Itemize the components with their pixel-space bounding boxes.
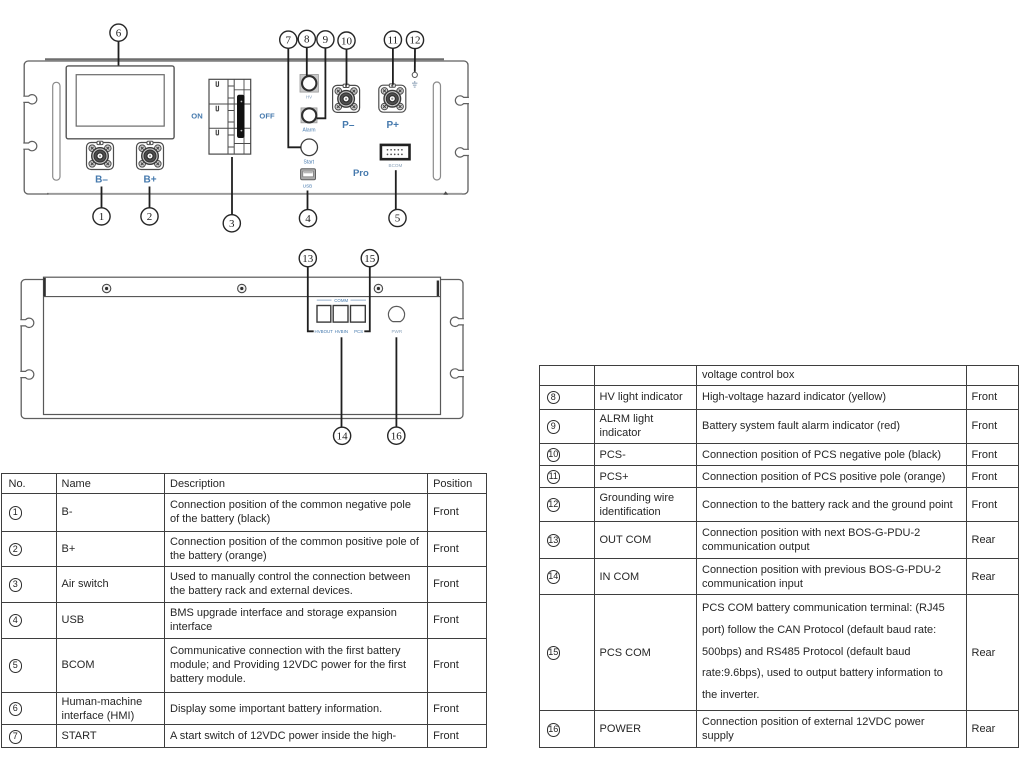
callout 16: [388, 427, 405, 444]
PWR connector (16): [388, 306, 404, 321]
leader line 16: [395, 337, 397, 427]
svg-text:9: 9: [323, 34, 329, 46]
grounding symbol: [412, 81, 417, 87]
leader line 4: [307, 191, 309, 210]
leader line 13: [308, 267, 314, 332]
callout 3: [223, 215, 240, 232]
svg-text:HVBOUT: HVBOUT: [315, 329, 334, 334]
svg-text:Start: Start: [304, 159, 315, 165]
svg-text:HVBIN: HVBIN: [335, 329, 348, 334]
front right slot: [433, 82, 440, 180]
connector B- (1): [87, 141, 114, 169]
front left slot: [53, 82, 60, 180]
air switch Q3: [209, 79, 251, 154]
front panel mounting bracket: [24, 61, 468, 194]
callout 2: [141, 208, 158, 225]
svg-text:BCOM: BCOM: [389, 163, 403, 168]
svg-text:14: 14: [337, 431, 349, 443]
bottom edge dot mark: [47, 193, 49, 195]
svg-text:15: 15: [364, 253, 376, 265]
callout 15: [361, 250, 378, 267]
leader line 9: [317, 48, 326, 118]
svg-text:PWR: PWR: [391, 329, 402, 334]
svg-text:PCS: PCS: [354, 329, 363, 334]
COMM label with rules: [317, 298, 366, 303]
leader line 8: [306, 47, 308, 75]
leader line 7: [288, 48, 301, 147]
svg-text:ON: ON: [191, 111, 202, 120]
right description table: [539, 365, 1019, 748]
callout 10: [338, 32, 355, 49]
HV indicator lamp (8): [300, 75, 318, 93]
svg-text:OFF: OFF: [259, 111, 275, 120]
svg-text:1: 1: [99, 211, 105, 223]
svg-text:6: 6: [116, 27, 122, 39]
rear face plate: [44, 277, 441, 414]
rear strip left cap: [43, 278, 45, 296]
svg-text:P+: P+: [386, 120, 399, 131]
front face top edge: [45, 58, 444, 60]
USB port (4): [301, 169, 316, 180]
alarm indicator lamp (9): [301, 108, 317, 123]
air switch toggle: [238, 95, 244, 137]
svg-text:P–: P–: [342, 120, 355, 131]
rear bracket notch right lower: [450, 369, 464, 378]
start button (7): [301, 139, 318, 156]
leader line 10: [346, 49, 348, 85]
svg-text:16: 16: [391, 430, 403, 442]
callout 8: [298, 30, 315, 47]
rear top strip: [44, 296, 441, 298]
callout 11: [384, 31, 401, 48]
leader line 1: [101, 187, 103, 208]
front bracket notch left lower: [23, 141, 37, 150]
rear panel mounting bracket: [21, 280, 463, 419]
svg-text:10: 10: [341, 35, 353, 47]
leader line 3: [231, 157, 233, 215]
leader line 15: [364, 267, 370, 332]
callout 12: [406, 31, 423, 48]
callout 6: [110, 24, 127, 41]
svg-text:HV: HV: [306, 95, 312, 100]
leader line 5: [395, 170, 397, 209]
svg-text:Pro: Pro: [353, 168, 369, 179]
svg-text:Alarm: Alarm: [302, 128, 315, 134]
rear bracket notch right upper: [450, 317, 464, 326]
rear strip right cap: [437, 281, 439, 297]
bottom edge wedge mark: [443, 191, 448, 194]
svg-text:7: 7: [286, 34, 292, 46]
callout 1: [93, 208, 110, 225]
svg-text:5: 5: [395, 213, 401, 225]
rear screw 1: [102, 284, 110, 292]
svg-text:B+: B+: [143, 175, 156, 186]
svg-text:COMM: COMM: [334, 298, 348, 303]
svg-text:4: 4: [305, 213, 311, 225]
HMI display U6: [66, 66, 174, 139]
BCOM connector (5): [381, 145, 410, 159]
svg-text:USB: USB: [303, 184, 312, 189]
callout 5: [389, 209, 406, 226]
svg-text:2: 2: [147, 211, 153, 223]
svg-text:11: 11: [388, 34, 399, 46]
connector P- (10): [333, 84, 360, 112]
rear bracket notch left upper: [20, 318, 34, 327]
callout 4: [299, 210, 316, 227]
rear bracket notch left lower: [20, 370, 34, 379]
connector B+ (2): [137, 141, 164, 169]
connector P+ (11): [379, 84, 406, 112]
air switch pole clips: [216, 81, 218, 86]
callout 9: [317, 31, 334, 48]
svg-text:3: 3: [229, 218, 235, 230]
RJ45 port HVBOUT (13): [317, 306, 331, 323]
leader line 12: [414, 49, 416, 72]
callout 14: [334, 427, 351, 444]
rear screw 3: [374, 284, 382, 292]
svg-text:B–: B–: [95, 175, 108, 186]
RJ45 port HVBIN (14): [333, 306, 348, 323]
front bracket notch right lower: [455, 148, 469, 157]
leader line 6: [118, 41, 120, 65]
left description table: [1, 473, 487, 748]
front face bottom edge: [47, 193, 462, 195]
svg-text:12: 12: [410, 35, 421, 47]
front bracket notch left upper: [23, 95, 37, 104]
svg-text:8: 8: [304, 34, 310, 46]
leader line 11: [392, 48, 394, 85]
svg-text:13: 13: [302, 253, 314, 265]
rear screw 2: [238, 284, 246, 292]
leader line 2: [149, 187, 151, 208]
callout 7: [280, 31, 297, 48]
front bracket notch right upper: [455, 96, 469, 105]
grounding point (12): [412, 72, 417, 77]
callout 13: [299, 250, 316, 267]
leader line 14: [341, 337, 343, 427]
RJ45 port PCS (15): [351, 306, 366, 323]
